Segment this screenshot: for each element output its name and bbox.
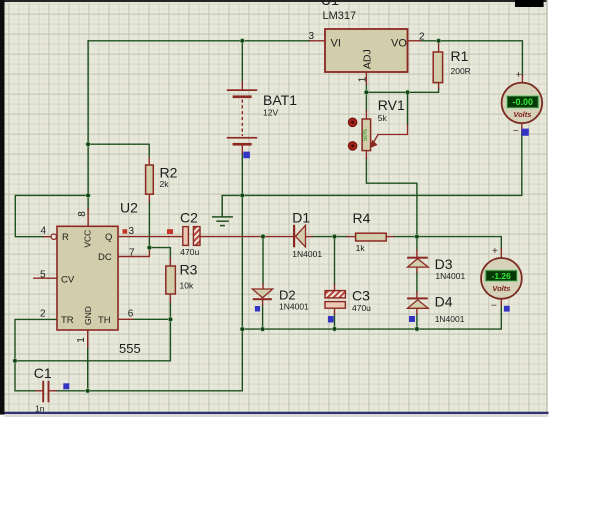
blue square marker D4 [409, 316, 415, 322]
wire R3 bottom [169, 302, 171, 319]
left black strip [0, 0, 5, 415]
svg-text:5k: 5k [378, 113, 388, 123]
C1 lead stubs [36, 390, 42, 392]
svg-text:2: 2 [40, 308, 46, 319]
svg-text:C2: C2 [180, 210, 198, 226]
svg-text:12V: 12V [263, 107, 278, 117]
svg-text:ADJ: ADJ [362, 49, 374, 69]
wire VI pin3 horizontal top [88, 40, 310, 42]
ground [212, 195, 233, 225]
potentiometer RV1 body [362, 119, 371, 151]
C2 lead stubs / wire to D1 [177, 236, 183, 238]
R4 lead stubs [347, 236, 356, 238]
svg-text:D3: D3 [435, 256, 453, 272]
svg-text:1n: 1n [35, 404, 45, 414]
svg-text:+: + [492, 246, 498, 257]
svg-text:VCC: VCC [83, 230, 93, 248]
wire C3 top branch [334, 237, 336, 285]
node C3 top [332, 234, 336, 238]
svg-text:-0.00: -0.00 [513, 97, 534, 107]
R1 lead stubs [438, 41, 440, 52]
R3 lead stubs [169, 258, 171, 266]
svg-text:-1.26: -1.26 [492, 271, 512, 281]
pin R-4 stub [44, 236, 51, 238]
battery BAT1 [227, 89, 257, 145]
node R2 top tee [86, 142, 90, 146]
svg-text:5: 5 [40, 269, 46, 280]
wire RV1 top [365, 92, 367, 111]
node RV1 wiper [405, 90, 409, 94]
node C3 bottom [332, 327, 336, 331]
svg-text:Volts: Volts [513, 110, 531, 119]
svg-text:200R: 200R [451, 66, 471, 76]
node R1 top [436, 39, 440, 43]
svg-text:1N4001: 1N4001 [435, 314, 465, 324]
timer U2 body [57, 226, 118, 330]
wire D2 bottom [262, 305, 264, 329]
svg-text:R1: R1 [451, 48, 469, 64]
svg-text:Q: Q [105, 232, 112, 243]
D4 lead stubs [416, 292, 418, 297]
svg-text:1N4001: 1N4001 [292, 249, 322, 259]
svg-text:RV1: RV1 [378, 97, 405, 113]
node DC / R2 / R3 [147, 245, 151, 249]
node TH / R3 [168, 317, 172, 321]
node GND pin / C1 right [86, 389, 90, 393]
wire R4 right to voltmeter2 plus [394, 237, 501, 249]
diode D1 [293, 225, 295, 248]
blue square marker C3 [328, 316, 334, 323]
node R4 right / D3 [415, 234, 419, 238]
R2 lead stubs [148, 158, 150, 165]
U1 labels [309, 0, 426, 82]
svg-text:6: 6 [128, 308, 134, 319]
wire R3 top to DC node [149, 248, 170, 258]
svg-text:TR: TR [61, 315, 74, 326]
wire GND pin1 down [87, 347, 89, 391]
wire VCC vertical left [87, 41, 89, 209]
svg-text:−: − [513, 126, 519, 137]
svg-text:10k: 10k [180, 281, 194, 291]
svg-text:GND: GND [83, 306, 93, 325]
red square markers on pin 3 net [123, 229, 128, 233]
svg-text:1N4001: 1N4001 [279, 302, 309, 312]
D1 lead stubs [306, 236, 312, 238]
svg-text:TH: TH [98, 315, 111, 326]
svg-text:3: 3 [129, 226, 135, 237]
wire pin4 R loop [15, 195, 88, 236]
wire D4 bottom [416, 314, 418, 329]
resistor R1 [433, 52, 442, 83]
pin DC-7 stub and wire to node [118, 249, 149, 257]
voltmeter PV2 [481, 246, 522, 312]
svg-text:1N4001: 1N4001 [435, 271, 465, 281]
svg-text:CV: CV [61, 275, 75, 286]
wire C3 bottom [334, 314, 336, 329]
capacitor C1 [43, 381, 48, 403]
node bottom rail left [240, 327, 244, 331]
svg-text:2k: 2k [160, 179, 170, 189]
svg-text:VI: VI [331, 38, 341, 50]
wire gnd vertical to bottom rail [241, 195, 243, 390]
node battery top [240, 39, 244, 43]
resistor R4 [356, 233, 387, 241]
svg-text:470u: 470u [352, 303, 371, 313]
wire battery bottom [241, 153, 243, 195]
wire D1 to R4 [312, 236, 347, 238]
node battery bottom / ground rail [240, 193, 244, 197]
D2 lead stubs [262, 284, 264, 289]
wire C1 left loop [15, 361, 36, 391]
node pin4 branch tee [86, 193, 90, 197]
schematic grid background [5, 3, 548, 412]
wire battery top [241, 41, 243, 82]
node D4 bottom [415, 327, 419, 331]
regulator U1 body [325, 29, 408, 72]
blue square marker D2 [255, 306, 260, 312]
diode D4 [407, 297, 428, 299]
svg-text:1k: 1k [356, 243, 366, 253]
svg-text:Volts: Volts [492, 284, 510, 293]
pin TH-6 stub [118, 318, 133, 320]
wire RV1 bottom to D3 chain [366, 158, 417, 250]
wire ground rail [222, 131, 522, 195]
voltmeter PV1 [502, 70, 543, 137]
pin GND-1 stub [87, 330, 89, 347]
svg-text:2: 2 [419, 32, 425, 43]
probe marker blue square V1 [522, 129, 529, 136]
pin VO stub [408, 40, 421, 42]
wire D3-D4 middle [416, 272, 418, 292]
wire VO to R1 top and voltmeter1 plus [420, 41, 522, 75]
wire TR pin2 [15, 319, 72, 360]
wire R2 top branch [88, 144, 149, 158]
pin TR-2 stub [57, 318, 72, 320]
node D2 bottom [260, 327, 264, 331]
wire D2 top branch [262, 237, 264, 284]
pin ADJ stub [365, 72, 367, 84]
svg-text:R: R [62, 232, 69, 243]
pin VCC-8 stub [87, 209, 89, 226]
blue square marker battery [243, 152, 250, 159]
wire TH pin6 [133, 318, 170, 320]
svg-text:R4: R4 [353, 210, 371, 226]
wire ADJ to R1 bottom [366, 88, 438, 92]
pin Q-3 stub and wire to C2 [118, 236, 177, 238]
svg-text:−: − [491, 301, 497, 312]
node ADJ / RV1 top [364, 90, 368, 94]
wire bottom loop to TH [15, 319, 170, 361]
svg-text:U1: U1 [321, 0, 339, 8]
svg-text:3: 3 [309, 31, 315, 42]
svg-text:7: 7 [129, 248, 135, 259]
diode D3 [407, 257, 428, 259]
node C1 left [13, 359, 17, 363]
svg-text:D2: D2 [279, 288, 296, 303]
svg-text:C1: C1 [34, 365, 52, 381]
wire bottom ground rail [242, 305, 501, 329]
U2 labels [61, 230, 112, 326]
svg-text:555: 555 [119, 341, 141, 356]
RV1 adjust buttons [348, 118, 357, 127]
svg-text:1: 1 [358, 76, 369, 82]
resistor R3 [166, 266, 176, 294]
wire C1 right to gnd [56, 390, 242, 392]
svg-text:C3: C3 [352, 288, 370, 304]
svg-text:D1: D1 [292, 210, 310, 226]
pin CV-5 stub [34, 277, 57, 279]
svg-text:R3: R3 [180, 262, 198, 278]
svg-text:4: 4 [41, 226, 47, 237]
svg-text:LM317: LM317 [323, 10, 357, 22]
voltmeter1 terminal stubs [521, 75, 523, 83]
battery lead stubs [241, 82, 243, 89]
top window edge line [0, 0, 547, 2]
RV1 wiper arrow [407, 92, 409, 125]
blue square marker C1 [63, 383, 69, 389]
probe marker blue square V2 [504, 306, 510, 312]
RV1 lead stubs [365, 111, 367, 119]
D3 lead stubs [416, 250, 418, 257]
svg-text:U2: U2 [120, 200, 138, 216]
capacitor C3 (polar) [325, 291, 345, 298]
pin 4 inversion bubble [51, 234, 56, 239]
svg-text:1: 1 [76, 337, 87, 343]
svg-text:VO: VO [391, 38, 407, 50]
voltmeter2 terminal stubs [500, 249, 502, 258]
diode D2 [252, 289, 272, 298]
svg-text:D4: D4 [435, 294, 453, 310]
capacitor C2 (polar) [183, 227, 189, 246]
resistor R2 [146, 165, 154, 194]
svg-text:50%: 50% [363, 128, 369, 141]
pin VI stub [310, 40, 325, 42]
grey strip under navy line [5, 414, 549, 417]
svg-text:8: 8 [77, 211, 88, 217]
svg-text:BAT1: BAT1 [263, 92, 297, 108]
svg-text:+: + [516, 70, 522, 81]
node D2 top [261, 234, 265, 238]
wire ADJ node [365, 84, 367, 92]
C3 lead stubs [334, 285, 336, 291]
svg-text:470u: 470u [180, 247, 199, 257]
wire R2 bottom to DC node [148, 201, 150, 248]
top right black bar [515, 0, 544, 7]
bottom navy separator line [5, 412, 549, 414]
svg-text:DC: DC [98, 252, 112, 263]
